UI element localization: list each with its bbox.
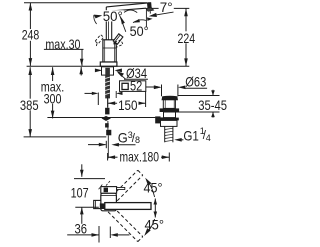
svg-text:50°: 50° [130,23,149,39]
svg-text:45°: 45° [144,180,163,196]
svg-text:107: 107 [71,185,89,201]
svg-text:G1: G1 [183,127,199,143]
svg-text:36: 36 [75,221,88,237]
svg-text:385: 385 [20,97,39,113]
svg-text:52: 52 [130,77,143,93]
svg-text:224: 224 [178,30,196,46]
svg-text:4: 4 [206,133,211,143]
svg-text:max.180: max.180 [120,148,160,164]
svg-text:300: 300 [44,91,62,107]
svg-text:150: 150 [118,97,138,113]
svg-text:45°: 45° [145,216,165,232]
svg-text:8: 8 [135,135,140,145]
svg-text:248: 248 [22,27,40,43]
svg-text:35-45: 35-45 [198,97,227,113]
svg-text:Ø63: Ø63 [185,73,206,89]
svg-text:G: G [118,130,128,146]
